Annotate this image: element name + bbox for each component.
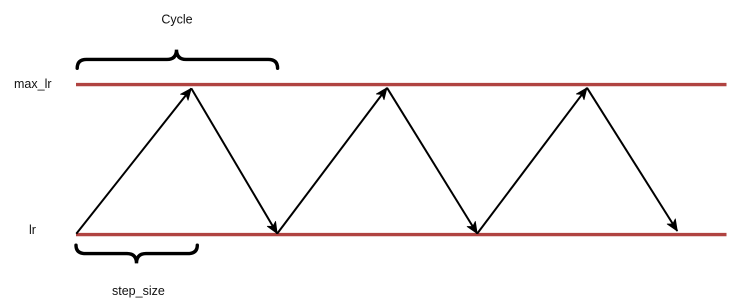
arrow up 2 xyxy=(277,88,387,234)
arrow down 3 xyxy=(587,88,677,231)
svg-text:max_lr: max_lr xyxy=(14,77,52,91)
arrow down 2 xyxy=(387,88,477,234)
brace step_size (underbrace) xyxy=(76,245,197,263)
svg-text:step_size: step_size xyxy=(112,284,165,298)
line max_lr (red) xyxy=(76,83,727,86)
arrow up 3 xyxy=(477,88,587,234)
brace cycle (overbrace) xyxy=(77,50,277,69)
svg-text:lr: lr xyxy=(29,223,36,237)
svg-text:Cycle: Cycle xyxy=(161,13,192,27)
arrow up 1 xyxy=(76,88,191,233)
arrow down 1 xyxy=(191,88,277,233)
line lr (red) xyxy=(76,233,727,236)
